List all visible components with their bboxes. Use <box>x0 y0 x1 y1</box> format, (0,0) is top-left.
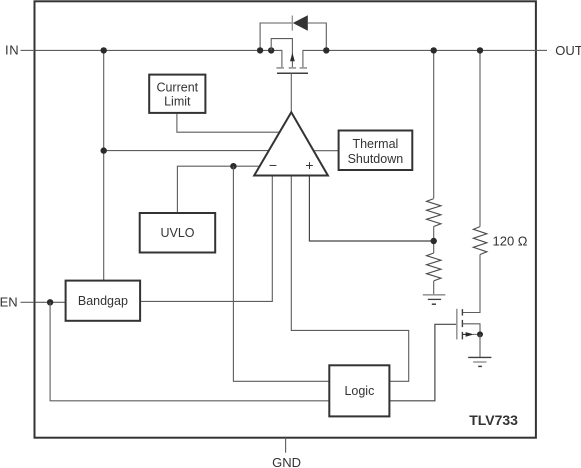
wire EN to Logic <box>50 302 329 401</box>
wire NMOS source to ground <box>479 334 481 357</box>
svg-text:Limit: Limit <box>164 95 191 109</box>
junction dot diode cathode / OUT <box>323 47 329 53</box>
svg-text:UVLO: UVLO <box>160 226 194 240</box>
transistor Q2 NMOS pulldown <box>457 309 480 340</box>
wire Logic to NMOS gate <box>389 324 456 401</box>
block Logic <box>329 365 389 416</box>
pin GND <box>272 438 301 468</box>
wire OUT to feedback divider <box>433 50 435 198</box>
svg-text:Current: Current <box>156 81 198 95</box>
pass transistor Q1 PMOS <box>271 39 308 113</box>
block Thermal Shutdown <box>339 131 413 171</box>
svg-text:GND: GND <box>272 455 301 468</box>
svg-text:+: + <box>305 157 313 173</box>
pin EN <box>0 294 35 309</box>
svg-text:TLV733: TLV733 <box>469 412 518 428</box>
block UVLO <box>140 213 216 253</box>
resistor R1 feedback top <box>427 199 442 227</box>
block Current Limit <box>149 75 205 113</box>
resistor R2 feedback bottom <box>427 253 442 295</box>
junction dot UVLO line / logic branch <box>230 163 236 169</box>
svg-text:OUT: OUT <box>555 43 581 58</box>
wire amplifier bottom to Logic loop <box>291 176 408 382</box>
junction dot diode anode / IN <box>257 47 263 53</box>
junction dot EN branch <box>47 299 53 305</box>
wire IN branch down to Bandgap <box>103 50 105 280</box>
svg-text:Bandgap: Bandgap <box>78 294 128 308</box>
pin IN <box>5 42 35 57</box>
resistor R3 120 ohm <box>473 227 528 255</box>
svg-text:Thermal: Thermal <box>352 137 398 151</box>
junction dot IN supply branch <box>101 147 107 153</box>
pin OUT <box>536 43 581 58</box>
wire 120 ohm to NMOS drain <box>462 255 480 313</box>
junction dot PMOS body tie <box>268 47 274 53</box>
ground feedback divider <box>423 295 446 304</box>
wire IN branch to amplifier supply <box>104 150 270 152</box>
wire EN to Bandgap <box>36 301 66 303</box>
wire UVLO to amplifier minus input <box>177 166 261 213</box>
block Bandgap <box>66 281 141 321</box>
svg-text:Shutdown: Shutdown <box>348 152 404 166</box>
source/drain/body channel pads drawn gray <box>276 67 284 69</box>
svg-text:Logic: Logic <box>344 384 374 398</box>
part label TLV733 <box>469 412 518 428</box>
svg-text:−: − <box>269 157 277 173</box>
svg-text:EN: EN <box>0 294 18 309</box>
wire OUT rail <box>303 50 536 67</box>
wire IN rail <box>36 50 282 67</box>
junction dot OUT / 120 ohm <box>477 47 483 53</box>
junction dot OUT / divider <box>431 47 437 53</box>
wire amplifier to Thermal Shutdown <box>310 150 339 152</box>
wire amplifier plus input to feedback node <box>309 176 433 242</box>
wire amp minus branch down to Logic <box>233 166 329 381</box>
svg-text:IN: IN <box>5 42 19 57</box>
junction dot NMOS source/body <box>477 331 483 337</box>
wire Current Limit to amplifier <box>177 113 281 132</box>
junction dot feedback node <box>431 238 437 244</box>
wire feedback mid node <box>433 226 435 253</box>
junction dot IN/bandgap branch <box>101 47 107 53</box>
svg-text:120 Ω: 120 Ω <box>493 234 528 249</box>
error amplifier U1 <box>254 112 328 175</box>
ground NMOS source <box>468 357 491 366</box>
wire OUT to 120 ohm resistor <box>479 50 481 226</box>
body diode D1 <box>260 15 326 50</box>
wire Bandgap output to amplifier <box>140 176 272 302</box>
